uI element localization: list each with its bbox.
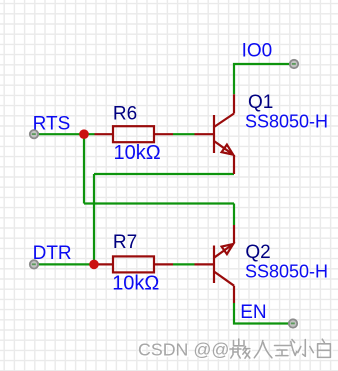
svg-text:SS8050-H: SS8050-H [245, 111, 328, 131]
svg-text:10kΩ: 10kΩ [114, 142, 161, 164]
wire Q2 collector to EN terminal [234, 303, 293, 324]
label R6 [113, 103, 137, 124]
junction RTS node [79, 129, 89, 139]
value 10kΩ of R6 [114, 142, 161, 164]
wire Q1 collector to IO0 terminal [234, 64, 294, 94]
resistor R7 [94, 256, 173, 272]
svg-text:R7: R7 [113, 232, 137, 253]
wire vertical to Q2 emitter pin [233, 204, 235, 226]
value SS8050-H of Q2 [245, 262, 328, 282]
wire across to Q1 emitter [94, 173, 234, 175]
svg-text:Q1: Q1 [248, 92, 273, 113]
net label DTR [33, 243, 72, 264]
svg-text:R6: R6 [113, 103, 137, 124]
transistor Q1 [195, 94, 235, 174]
svg-text:RTS: RTS [33, 114, 71, 135]
terminal pin IO0 [290, 60, 298, 68]
net label IO0 [242, 40, 273, 61]
wire RTS horizontal [34, 133, 95, 135]
net label EN [240, 302, 266, 323]
value 10kΩ of R7 [112, 272, 159, 294]
label R7 [113, 232, 137, 253]
label Q1 [248, 92, 273, 113]
terminal pin RTS [30, 130, 38, 138]
watermark CSDN @@嵌入式小白 [138, 339, 332, 361]
net label RTS [33, 114, 71, 135]
svg-text:Q2: Q2 [245, 242, 270, 263]
wire R7 to Q2 base [173, 263, 195, 265]
svg-text:EN: EN [240, 302, 266, 323]
svg-text:10kΩ: 10kΩ [112, 272, 159, 294]
svg-text:SS8050-H: SS8050-H [245, 262, 328, 282]
wire DTR junction up [93, 174, 95, 264]
svg-text:DTR: DTR [33, 243, 72, 264]
resistor R6 [95, 126, 174, 142]
wire R6 to Q1 base [173, 133, 195, 135]
wire DTR horizontal [34, 263, 94, 265]
label Q2 [245, 242, 270, 263]
value SS8050-H of Q1 [245, 111, 328, 131]
terminal pin DTR [30, 260, 38, 268]
terminal pin EN [289, 319, 297, 327]
wire RTS junction down [83, 134, 85, 203]
wire across to Q2 emitter [84, 202, 234, 204]
transistor Q2 [195, 225, 235, 303]
junction DTR node [89, 260, 99, 270]
svg-text:IO0: IO0 [242, 40, 273, 61]
svg-text:CSDN @@: CSDN @@ [138, 340, 229, 360]
